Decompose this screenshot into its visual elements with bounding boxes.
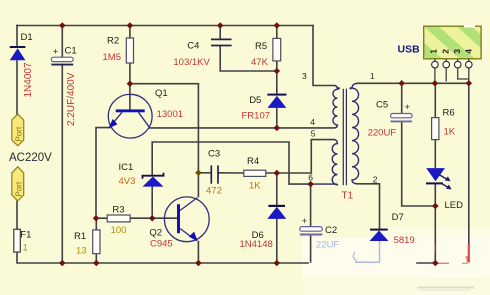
node bottom rail / D6 bbox=[274, 260, 281, 267]
red watermark residue bbox=[435, 244, 469, 263]
wire C4 bottom to R5 bottom bbox=[220, 46, 277, 71]
svg-text:4V3: 4V3 bbox=[119, 176, 136, 187]
port P2 AC neutral bbox=[12, 167, 24, 201]
resistor R6 bbox=[432, 118, 439, 140]
svg-text:R4: R4 bbox=[247, 156, 259, 167]
wire F1 to bottom rail bbox=[17, 252, 308, 263]
transistor Q1 bbox=[108, 94, 152, 138]
svg-text:R1: R1 bbox=[74, 231, 86, 242]
wire R2 column bbox=[129, 26, 131, 39]
wire D7 lower lead washed bbox=[379, 241, 381, 262]
svg-text:2: 2 bbox=[440, 49, 450, 54]
wire D1 cathode to top rail bbox=[16, 26, 18, 48]
svg-text:1M5: 1M5 bbox=[103, 52, 121, 63]
svg-text:R3: R3 bbox=[112, 204, 124, 215]
wire R3 node to Q2 base bbox=[96, 217, 107, 219]
labels: values bbox=[23, 52, 456, 257]
washed watermark background area bbox=[302, 238, 490, 277]
svg-text:1: 1 bbox=[429, 49, 439, 54]
node LED / bottom rail bbox=[432, 260, 439, 267]
svg-text:220UF: 220UF bbox=[368, 127, 397, 138]
labels: designators bbox=[9, 32, 463, 242]
T1 secondary winding pins 1-2 bbox=[352, 83, 359, 184]
wire R1 column bbox=[95, 218, 97, 230]
capacitor C5 bbox=[391, 102, 413, 121]
svg-text:D5: D5 bbox=[249, 95, 261, 106]
wire USB pin4 down right side bbox=[468, 83, 470, 244]
node R3 left / Q1 emitter / R1 bbox=[93, 215, 100, 222]
capacitor C2 bbox=[300, 216, 323, 235]
svg-text:5819: 5819 bbox=[394, 235, 415, 246]
node top rail / C4 bbox=[217, 22, 224, 29]
wire R5 column bbox=[276, 26, 278, 39]
svg-text:T1: T1 bbox=[342, 191, 354, 202]
wire USB pin4 lead bbox=[468, 68, 470, 83]
svg-text:13: 13 bbox=[76, 246, 87, 257]
node top rail / R5 bbox=[274, 22, 281, 29]
node top rail / C1 bbox=[59, 22, 66, 29]
svg-text:4: 4 bbox=[464, 49, 474, 54]
svg-text:+: + bbox=[405, 102, 411, 113]
svg-text:22UF: 22UF bbox=[316, 239, 339, 250]
wire USB pin3 lead bbox=[458, 68, 469, 79]
svg-text:C2: C2 bbox=[325, 225, 337, 236]
node bottom rail / R1 bbox=[93, 260, 100, 267]
svg-text:1N4148: 1N4148 bbox=[240, 239, 273, 250]
wire D1 anode to Port bbox=[16, 60, 18, 115]
svg-text:1N4007: 1N4007 bbox=[23, 62, 34, 97]
svg-text:Port: Port bbox=[14, 181, 23, 196]
port P1 AC live bbox=[12, 114, 24, 146]
svg-text:Q2: Q2 bbox=[149, 227, 162, 238]
T1 core bbox=[343, 89, 346, 186]
svg-text:C5: C5 bbox=[376, 100, 388, 111]
wire R4 to D6 node to pin 5 riser bbox=[266, 140, 334, 173]
wire secondary pin1 to USB rail bbox=[358, 82, 469, 84]
node pin6 / C2 bbox=[307, 181, 314, 188]
wire zener IC1 to transformer pin 6 bbox=[152, 142, 310, 184]
resistor R4 bbox=[244, 170, 266, 176]
node bottom rail / C1 bbox=[59, 260, 66, 267]
wire USB pin2 lead bbox=[445, 68, 447, 81]
zener IC1 bbox=[143, 173, 164, 187]
svg-text:5: 5 bbox=[311, 129, 316, 139]
svg-text:AC220V: AC220V bbox=[9, 152, 52, 164]
node C4 / R5 / D5 bbox=[274, 68, 281, 75]
wire C2 bottom lead bbox=[310, 235, 312, 262]
resistor R1 bbox=[93, 230, 100, 254]
svg-text:1K: 1K bbox=[249, 181, 261, 192]
svg-text:C945: C945 bbox=[150, 238, 173, 249]
svg-text:C3: C3 bbox=[208, 148, 220, 159]
svg-text:4: 4 bbox=[310, 117, 315, 127]
svg-text:13001: 13001 bbox=[157, 109, 183, 120]
svg-text:LED: LED bbox=[445, 200, 464, 211]
wire D5 anode to pin4 wire bbox=[276, 108, 278, 128]
transistor Q2 bbox=[164, 197, 209, 242]
node R3 right / zener / Q2 base bbox=[149, 215, 156, 222]
svg-text:R5: R5 bbox=[255, 41, 267, 52]
svg-text:USB: USB bbox=[398, 44, 421, 56]
svg-text:Port: Port bbox=[14, 126, 23, 141]
svg-text:C1: C1 bbox=[65, 46, 77, 57]
node R2 / Q1 base bbox=[127, 80, 134, 87]
wire C5 bottom to LED cathode node bbox=[402, 122, 436, 206]
wire Q1 emitter to R3 node bbox=[96, 128, 110, 219]
wire C3 row bbox=[198, 172, 211, 174]
resistor R2 bbox=[126, 38, 133, 63]
USB connector J1 bbox=[424, 25, 481, 68]
svg-text:47K: 47K bbox=[251, 57, 269, 68]
diode D5 bbox=[267, 94, 286, 108]
capacitor C3 bbox=[211, 165, 218, 183]
node bottom rail / Q2 emitter bbox=[195, 260, 202, 267]
capacitor C4 bbox=[211, 39, 232, 45]
svg-text:+: + bbox=[302, 216, 308, 227]
node D5 / Q1 collector / pin4 bbox=[274, 125, 281, 132]
wire transformer pin2 drop to D7 bbox=[357, 184, 380, 230]
wire bottom rail right visible segment bbox=[417, 262, 437, 264]
resistor R5 bbox=[273, 38, 281, 61]
wire top rail bbox=[17, 25, 313, 27]
svg-text:FR107: FR107 bbox=[242, 110, 271, 121]
svg-text:R6: R6 bbox=[443, 108, 455, 119]
svg-text:6: 6 bbox=[308, 172, 313, 182]
svg-text:1: 1 bbox=[23, 242, 28, 253]
wire C5 top lead bbox=[401, 83, 403, 113]
node R4 / D6 / pin5 bbox=[274, 170, 281, 177]
wire zener anode to R3 node bbox=[151, 187, 153, 219]
svg-text:D7: D7 bbox=[392, 212, 404, 223]
labels: transformer pin numbers bbox=[302, 71, 378, 185]
svg-text:+: + bbox=[53, 47, 59, 58]
T1 aux winding pins 5-6 bbox=[311, 140, 338, 185]
node C3 tap bbox=[195, 170, 202, 177]
wire R6 to LED bbox=[434, 140, 436, 168]
faint watermark remnant bottom right bbox=[417, 287, 474, 292]
node USB pin4 / rail bbox=[466, 80, 473, 87]
fuse F1 bbox=[14, 229, 20, 252]
svg-text:2: 2 bbox=[373, 175, 378, 185]
wire bottom rail washed segment bbox=[355, 261, 380, 263]
node top rail / R2 bbox=[127, 22, 134, 29]
wire R2 bottom to Q2 collector column bbox=[130, 84, 199, 197]
diode D6 bbox=[267, 205, 286, 219]
wire Port2 to F1 bbox=[16, 201, 18, 229]
wire Q2 emitter to bottom rail bbox=[197, 242, 199, 263]
wire C2 column to pin6 node bbox=[310, 184, 312, 226]
svg-text:1: 1 bbox=[370, 71, 375, 81]
svg-text:3: 3 bbox=[452, 49, 462, 54]
svg-text:D1: D1 bbox=[21, 32, 33, 43]
svg-text:Q1: Q1 bbox=[155, 88, 168, 99]
wire Q1 collector to transformer pin 4 bbox=[150, 127, 335, 129]
transformer T1 bbox=[311, 83, 359, 185]
diode D7 bbox=[370, 229, 389, 241]
svg-text:100: 100 bbox=[111, 225, 127, 236]
USB pin circles bbox=[432, 59, 473, 68]
svg-text:IC1: IC1 bbox=[119, 162, 134, 173]
svg-text:F1: F1 bbox=[20, 229, 31, 240]
wire C4 column bbox=[219, 26, 221, 40]
svg-text:472: 472 bbox=[206, 186, 222, 197]
T1 polarity dots bbox=[338, 87, 340, 89]
resistor R3 bbox=[107, 215, 130, 222]
diode D1 bbox=[10, 46, 26, 60]
LED D-LED bbox=[426, 168, 452, 189]
svg-text:R2: R2 bbox=[107, 36, 119, 47]
node C5 top bbox=[398, 80, 405, 87]
wire R6 top lead bbox=[434, 83, 436, 117]
svg-text:2.2UF/400V: 2.2UF/400V bbox=[66, 72, 77, 126]
wire USB pin1 lead bbox=[434, 68, 436, 83]
wire C1 column bbox=[61, 26, 63, 58]
svg-text:3: 3 bbox=[302, 71, 307, 81]
svg-text:103/1KV: 103/1KV bbox=[173, 57, 210, 68]
node LED cathode / C5 bbox=[432, 203, 439, 210]
wire LED cathode to bottom rail bbox=[434, 184, 436, 264]
wire D6 column bbox=[276, 173, 278, 205]
svg-text:C4: C4 bbox=[187, 41, 199, 52]
node USB pin1 / R6 bbox=[432, 80, 439, 87]
svg-text:1K: 1K bbox=[444, 126, 456, 137]
washed faint wires (watermark-erased) bbox=[353, 241, 380, 262]
capacitor C1 bbox=[51, 47, 73, 65]
wire top rail drop to transformer pin 3 bbox=[313, 26, 335, 86]
T1 primary winding pins 3-4 bbox=[333, 86, 337, 128]
